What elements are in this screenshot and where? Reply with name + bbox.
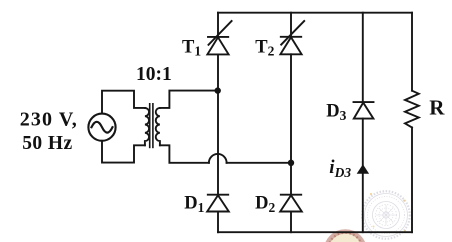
resistor R (405, 91, 419, 128)
diode D2 (280, 195, 302, 212)
diode D3 (354, 102, 374, 119)
AC source (88, 114, 115, 141)
transformer primary winding (145, 108, 149, 145)
wire T1-D1 leg (217, 13, 219, 37)
svg-text:D3: D3 (326, 102, 346, 123)
svg-text:D2: D2 (255, 193, 275, 214)
wire T2-D2 leg (290, 13, 292, 37)
wire secondary bottom to T2 leg (227, 162, 291, 164)
wire R leg top (411, 13, 413, 91)
wire bottom rail (218, 231, 412, 233)
svg-text:T2: T2 (255, 37, 274, 58)
node junction dot secondary-top / T1 leg (215, 87, 221, 93)
wire D3 leg (362, 13, 364, 102)
current arrow iD3 (357, 164, 369, 174)
svg-text:R: R (429, 96, 445, 120)
thyristor T2 (280, 21, 304, 54)
thyristor T1 (207, 21, 231, 54)
wire primary loop (102, 91, 145, 114)
svg-text:D1: D1 (184, 193, 204, 214)
faint background watermarks (decorative, drawn first) (326, 191, 410, 242)
transformer core (150, 104, 153, 148)
svg-text:230 V,: 230 V, (20, 108, 78, 130)
svg-text:50 Hz: 50 Hz (22, 133, 72, 154)
wire hop over T1 leg (209, 154, 227, 163)
transformer secondary winding (156, 108, 160, 145)
node junction dot secondary-bottom / T2 leg (288, 160, 294, 166)
svg-text:iD3: iD3 (329, 157, 351, 180)
diode D1 (207, 195, 229, 212)
svg-text:T1: T1 (182, 37, 201, 58)
wire R leg bottom (411, 128, 413, 233)
svg-text:10:1: 10:1 (136, 64, 172, 85)
wire secondary loop (160, 91, 218, 108)
wire top rail (218, 12, 412, 14)
